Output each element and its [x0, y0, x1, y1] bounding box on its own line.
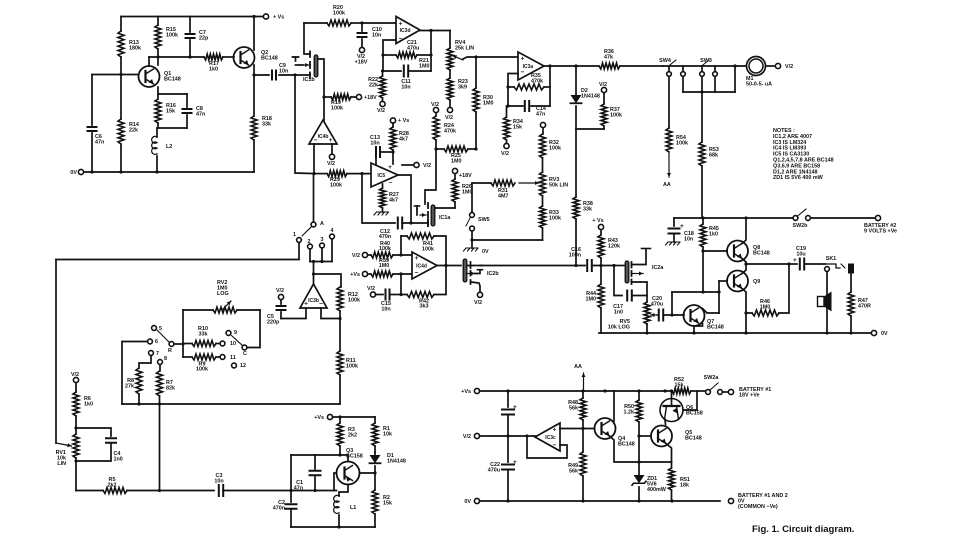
resistor R41	[400, 236, 402, 255]
svg-text:V/2: V/2	[474, 300, 482, 306]
svg-text:1M0: 1M0	[586, 297, 597, 303]
svg-text:9 VOLTS +Ve: 9 VOLTS +Ve	[864, 229, 897, 235]
svg-text:BC158: BC158	[686, 411, 703, 417]
capacitor C22 upper	[507, 391, 509, 407]
wire top rail right section	[674, 217, 793, 219]
svg-text:BC148: BC148	[618, 442, 635, 448]
wire contact 6 to bus	[122, 342, 148, 405]
rotary C contact 11	[220, 355, 225, 360]
svg-text:SW2b: SW2b	[793, 223, 809, 229]
rotary A contact 3	[320, 243, 325, 248]
svg-text:100k: 100k	[330, 183, 342, 189]
svg-text:1n0: 1n0	[114, 457, 123, 463]
svg-text:100k: 100k	[422, 247, 434, 253]
resistor R20	[304, 22, 327, 24]
wire IC3c plus input to Q4 base	[560, 428, 594, 430]
wire M1 to V/2 terminal	[766, 65, 776, 67]
wire Q5 emitter to R51	[666, 444, 672, 463]
transistor Q1	[148, 57, 150, 66]
svg-text:AA: AA	[574, 364, 582, 370]
svg-text:V/2: V/2	[423, 163, 431, 169]
resistor R15	[157, 17, 159, 26]
wire +Vs oscillator rail	[333, 416, 376, 418]
transistor Q7	[684, 305, 705, 326]
svg-text:10n: 10n	[214, 479, 223, 485]
svg-text:1n0: 1n0	[614, 310, 623, 316]
svg-text:−: −	[553, 442, 557, 449]
wire speaker line	[826, 272, 828, 334]
svg-text:0V: 0V	[464, 499, 471, 505]
resistor R30	[475, 57, 477, 88]
svg-text:68k: 68k	[709, 153, 718, 159]
svg-text:8: 8	[164, 356, 167, 362]
wire R52 to Q6	[683, 391, 697, 410]
svg-text:1k0: 1k0	[709, 232, 718, 238]
wire contacts 2-4 bus	[309, 249, 311, 262]
wire IC3a feedback	[508, 74, 518, 107]
svg-text:120k: 120k	[608, 244, 620, 250]
wire C10 node to IC3d + input	[362, 22, 396, 24]
switch SW2b	[793, 216, 798, 221]
wire C12 to IC1a gate	[427, 220, 429, 226]
svg-text:0V: 0V	[70, 170, 77, 176]
ground 0V at SW5	[471, 240, 473, 248]
svg-text:470R: 470R	[858, 304, 871, 310]
terminal V/2 for R40	[362, 252, 367, 257]
resistor R25	[435, 140, 437, 149]
wire IC3d output	[420, 30, 450, 32]
resistor R31	[472, 182, 491, 184]
svg-text:12: 12	[240, 363, 246, 369]
wire feedback right leg	[430, 31, 432, 72]
svg-text:47n: 47n	[536, 112, 545, 118]
resistor R45	[702, 218, 704, 224]
wire +Vs feed line	[313, 262, 315, 275]
svg-text:−: −	[314, 137, 318, 144]
wire Q1 base	[92, 74, 138, 76]
svg-text:1M0: 1M0	[419, 64, 430, 70]
wire oscillator 0V rail	[291, 526, 375, 528]
wire contact 7 to R8	[139, 356, 151, 369]
svg-text:47k: 47k	[604, 55, 613, 61]
capacitor C3	[219, 485, 223, 496]
svg-text:IC3c: IC3c	[545, 435, 556, 441]
diode D2	[575, 66, 577, 95]
svg-text:3: 3	[321, 237, 324, 243]
svg-text:BC148: BC148	[164, 77, 181, 83]
wire AA arrow down	[668, 152, 670, 177]
wire contact 8 to R7	[159, 365, 161, 372]
terminal V/2 under IC4b	[331, 144, 333, 154]
svg-text:3k9: 3k9	[458, 85, 467, 91]
resistor R53	[701, 92, 703, 142]
terminal +Vs psu	[474, 388, 479, 393]
resistor R28	[390, 118, 395, 123]
wire R24 node to IC1a gate	[425, 149, 436, 204]
resistor R10	[183, 343, 192, 345]
resistor R13	[120, 17, 122, 32]
wire SW5 to ground node	[471, 231, 473, 240]
wire left bus vertical	[55, 260, 57, 444]
svg-text:82k: 82k	[166, 386, 175, 392]
FET IC1b	[314, 55, 318, 77]
rotary C blade	[242, 345, 247, 350]
svg-text:+: +	[388, 164, 392, 171]
svg-text:V/2: V/2	[327, 161, 335, 167]
terminal V/2 above R37	[601, 87, 606, 92]
svg-text:V/2: V/2	[431, 102, 439, 108]
svg-text:470u: 470u	[488, 468, 500, 474]
capacitor C15	[376, 294, 384, 296]
resistor R17	[204, 54, 223, 60]
svg-text:L2: L2	[166, 144, 172, 150]
FET IC2a	[625, 261, 629, 283]
op-amp IC5	[371, 163, 398, 187]
resistor R23	[449, 70, 451, 78]
svg-text:100k: 100k	[549, 146, 561, 152]
resistor R48	[582, 391, 584, 398]
svg-text:1M0: 1M0	[451, 159, 462, 165]
svg-text:10: 10	[230, 341, 236, 347]
svg-text:BC148: BC148	[261, 56, 278, 62]
resistor R11	[337, 351, 343, 375]
svg-text:−: −	[399, 36, 403, 43]
wire Q4 collector	[613, 391, 615, 421]
wire R7 down to R5 line	[159, 404, 161, 491]
terminal +Vs above R43	[598, 224, 603, 229]
transistor Q3 (pnp)	[337, 462, 360, 485]
wire R11 to left bus	[122, 403, 340, 405]
resistor R24	[435, 113, 437, 116]
svg-text:V/2: V/2	[367, 286, 375, 292]
rotary A contact 4	[330, 234, 335, 239]
svg-text:47n: 47n	[196, 112, 205, 118]
transistor Q4	[595, 418, 616, 439]
svg-text:Q9: Q9	[753, 279, 760, 285]
svg-text:(COMMON −Ve): (COMMON −Ve)	[738, 504, 778, 510]
svg-text:SW2a: SW2a	[704, 375, 720, 381]
speaker LS	[818, 297, 825, 307]
svg-text:400mW: 400mW	[647, 487, 667, 493]
terminal above R32	[540, 122, 545, 127]
rotary A contact 2	[308, 244, 313, 249]
wire psu top rail	[480, 390, 673, 392]
wire 0V bottom rail	[84, 171, 254, 173]
FET IC1a	[431, 205, 435, 226]
svg-text:1M0: 1M0	[760, 304, 771, 310]
svg-text:1.2k: 1.2k	[624, 410, 635, 416]
svg-text:IC2b: IC2b	[487, 271, 499, 277]
wire Q3 emitter to D1 node	[360, 472, 376, 474]
svg-text:IC1b: IC1b	[303, 77, 315, 83]
potentiometer RV2	[182, 310, 184, 344]
svg-text:BATTERY #1 AND 2: BATTERY #1 AND 2	[738, 493, 788, 499]
terminal V/2 above R24	[433, 107, 438, 112]
capacitor C9	[254, 74, 269, 76]
capacitor C6	[91, 75, 93, 126]
capacitor C4	[76, 428, 111, 436]
wire emitter follower node	[746, 263, 789, 265]
svg-text:15k: 15k	[513, 125, 522, 131]
svg-text:100k: 100k	[549, 216, 561, 222]
svg-text:AA: AA	[663, 182, 671, 188]
svg-text:V/2: V/2	[463, 434, 471, 440]
terminal +Vs for R39	[362, 271, 367, 276]
svg-text:10n: 10n	[372, 33, 381, 39]
svg-text:LOG: LOG	[217, 291, 229, 297]
wire SW2a to battery 1 terminal	[723, 391, 729, 393]
svg-text:22k: 22k	[129, 128, 138, 134]
terminal V/2 +18V under C10	[359, 47, 364, 52]
svg-text:−: −	[319, 301, 323, 308]
wire contact1 to left bus	[56, 243, 299, 260]
svg-text:10n: 10n	[279, 69, 288, 75]
svg-text:100k: 100k	[610, 113, 622, 119]
rotary R contact 6	[148, 339, 153, 344]
svg-text:BC148: BC148	[753, 251, 770, 257]
terminal V/2 psu	[474, 433, 479, 438]
resistor R54	[668, 77, 670, 129]
node wire Q1 collector	[149, 56, 204, 58]
wire Q3 collector top	[340, 455, 348, 462]
rotary R contact 5	[152, 326, 157, 331]
wire Q4 emitter	[610, 436, 640, 462]
wire C17 branch	[614, 266, 622, 296]
inductor L2	[156, 128, 158, 137]
svg-text:4: 4	[331, 228, 334, 234]
resistor R5	[75, 461, 77, 491]
svg-text:+: +	[680, 223, 684, 230]
wire SW contacts bus	[682, 77, 684, 93]
svg-text:100k: 100k	[379, 246, 391, 252]
svg-text:+: +	[304, 301, 308, 308]
svg-text:100k: 100k	[676, 141, 688, 147]
terminal V/2 for C15	[370, 292, 375, 297]
resistor R12	[337, 287, 343, 311]
svg-text:−: −	[415, 270, 419, 277]
resistor R27	[382, 184, 384, 188]
capacitor C22 lower	[507, 436, 509, 462]
FET IC2b	[463, 259, 467, 282]
wire IC3c feedback	[527, 436, 567, 458]
resistor R49	[582, 429, 584, 453]
svg-text:V/2: V/2	[599, 82, 607, 88]
svg-text:100k: 100k	[333, 11, 345, 17]
wire blade R to node	[174, 343, 183, 345]
ground under R27	[382, 208, 384, 212]
svg-text:2k2: 2k2	[348, 433, 357, 439]
resistor R6	[75, 383, 77, 392]
rotary C contact 9	[226, 331, 231, 336]
svg-text:BC148: BC148	[685, 436, 702, 442]
wire main meter line	[663, 65, 746, 67]
svg-text:+: +	[793, 257, 797, 264]
svg-text:100k: 100k	[346, 364, 358, 370]
svg-text:4M7: 4M7	[498, 194, 509, 200]
rotary C contact 12	[232, 363, 237, 368]
wire C9 node down to IC4b	[293, 73, 296, 76]
wire R33 bottom to SW5 node	[472, 239, 543, 241]
wire Q6 collector to Q5 collector	[664, 420, 667, 425]
capacitor C10	[360, 21, 363, 24]
resistor R21	[396, 52, 417, 58]
svg-text:+Vs: +Vs	[350, 272, 360, 278]
wire RV4 wiper to IC3a	[463, 57, 518, 59]
rotary R blade	[169, 342, 174, 347]
svg-text:+18V: +18V	[364, 95, 377, 101]
svg-text:+ Vs: + Vs	[592, 218, 603, 224]
wire R31 arrow to RV3 wiper	[519, 182, 539, 184]
terminal V/2 right of IC5	[402, 164, 414, 166]
svg-text:R: R	[168, 348, 172, 354]
resistor R36	[599, 63, 620, 69]
svg-text:+: +	[553, 427, 557, 434]
svg-text:6: 6	[155, 339, 158, 345]
svg-text:1N4148: 1N4148	[387, 459, 406, 465]
wire Q2 collector to rail	[253, 17, 255, 51]
resistor R7	[157, 371, 163, 396]
rotary C contact 10	[220, 341, 225, 346]
resistor R32	[542, 128, 544, 134]
svg-text:10k: 10k	[383, 432, 392, 438]
capacitor C16	[587, 260, 592, 271]
svg-text:V/2: V/2	[501, 151, 509, 157]
wire IC3b plus input	[281, 308, 306, 319]
resistor R40	[368, 254, 372, 256]
svg-text:1k0: 1k0	[84, 402, 93, 408]
svg-text:10k LOG: 10k LOG	[608, 325, 630, 331]
resistor R16 with C8 parallel box	[157, 87, 159, 94]
wire Q9 emitter down	[742, 289, 746, 334]
wire Q5 base	[639, 435, 651, 437]
svg-text:−: −	[389, 180, 393, 187]
resistor R37	[603, 93, 605, 104]
wire Q2 emitter node	[253, 65, 255, 116]
resistor R39	[368, 273, 372, 275]
svg-text:33k: 33k	[583, 207, 592, 213]
resistor R33	[542, 196, 544, 206]
svg-text:470k: 470k	[444, 129, 456, 135]
resistor R29	[327, 171, 347, 177]
svg-text:IC1a: IC1a	[439, 215, 451, 221]
wire psu bottom rail	[480, 500, 721, 502]
svg-text:22k: 22k	[369, 83, 378, 89]
resistor R26	[452, 168, 457, 173]
svg-text:+: +	[513, 459, 517, 466]
wire Q8 emitter to node	[742, 259, 746, 265]
wire +Vs top rail	[121, 16, 266, 18]
svg-text:SW4: SW4	[659, 58, 671, 64]
op-amp IC3c	[535, 423, 560, 451]
potentiometer RV4	[449, 31, 451, 49]
svg-text:3k3: 3k3	[420, 304, 429, 310]
svg-text:L1: L1	[350, 505, 356, 511]
svg-text:470n: 470n	[273, 506, 285, 512]
rotary R contact 8	[158, 360, 163, 365]
svg-text:+18V: +18V	[355, 60, 368, 66]
transistor Q9	[727, 271, 748, 292]
transistor Q6 (pnp)	[660, 399, 683, 422]
capacitor C17	[627, 291, 632, 301]
transistor Q5	[651, 426, 672, 447]
svg-text:1M0: 1M0	[462, 190, 473, 196]
svg-text:220p: 220p	[267, 320, 280, 326]
svg-text:10n: 10n	[370, 141, 379, 147]
capacitor C20	[658, 314, 659, 316]
svg-text:IC4b: IC4b	[318, 134, 329, 140]
resistor R14	[118, 119, 124, 144]
svg-text:56k: 56k	[569, 469, 578, 475]
capacitor C14	[508, 105, 523, 107]
svg-text:15k: 15k	[675, 383, 684, 389]
op-amp IC3d	[396, 17, 420, 44]
svg-text:10n: 10n	[381, 307, 390, 313]
diode D1	[374, 452, 376, 455]
svg-text:50-0-5- uA: 50-0-5- uA	[746, 82, 772, 88]
svg-text:1k0: 1k0	[209, 67, 218, 73]
resistor R43	[600, 230, 602, 235]
wire IC3a output	[544, 65, 599, 67]
wire Q9 collector	[742, 264, 746, 274]
switch SW5	[471, 183, 473, 212]
svg-text:ZD1 IS 5V6 400 mW: ZD1 IS 5V6 400 mW	[773, 175, 824, 181]
svg-text:50k LIN: 50k LIN	[549, 183, 568, 189]
meter M1	[747, 57, 766, 76]
wire C1 top line	[291, 454, 340, 456]
wire IC3d feedback minus input	[383, 40, 396, 71]
terminal V/2 under R22	[380, 101, 385, 106]
resistor R50	[638, 391, 640, 400]
wire R29 input line	[315, 173, 327, 175]
svg-text:470n: 470n	[379, 234, 391, 240]
svg-text:+ Vs: + Vs	[398, 118, 409, 124]
rotary R contact 7	[149, 351, 154, 356]
svg-text:+: +	[329, 137, 333, 144]
wire IC4d output bus	[437, 265, 461, 267]
transistor Q8	[727, 241, 748, 262]
wire blade C to RV2	[247, 310, 260, 348]
wire IC3b output to node	[313, 274, 315, 284]
wire Q9 base link	[719, 280, 727, 282]
resistor R19	[324, 96, 331, 98]
wire Q7 emitter	[694, 324, 703, 334]
terminal V/2 under R34	[506, 140, 508, 143]
op-amp IC3a	[518, 52, 544, 80]
svg-text:+ Vs: + Vs	[273, 15, 284, 21]
resistor R8	[136, 368, 142, 394]
svg-text:1M0: 1M0	[483, 101, 494, 107]
capacitor C12	[362, 174, 395, 223]
svg-text:V/2: V/2	[276, 288, 284, 294]
svg-text:10n: 10n	[684, 237, 693, 243]
svg-text:2: 2	[308, 239, 311, 245]
svg-text:9: 9	[234, 330, 237, 336]
wire SW2b to battery 2 terminal	[811, 217, 876, 219]
wire Q8 collector	[742, 218, 746, 244]
capacitor C7	[189, 17, 191, 33]
svg-text:SW3: SW3	[700, 58, 712, 64]
svg-text:5: 5	[159, 326, 162, 332]
svg-text:100n: 100n	[569, 253, 581, 259]
svg-text:SW5: SW5	[478, 217, 490, 223]
capacitor C8	[186, 94, 188, 107]
op-amp IC4b	[309, 120, 337, 144]
svg-text:1N4148: 1N4148	[581, 94, 600, 100]
svg-text:15k: 15k	[166, 109, 175, 115]
resistor R9	[182, 344, 184, 358]
terminal V/2 above R6	[73, 377, 78, 382]
transistor Q2	[234, 47, 255, 68]
